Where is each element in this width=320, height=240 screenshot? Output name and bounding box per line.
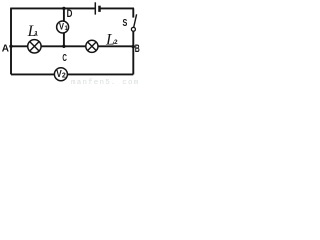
svg-text:manfen5. com: manfen5. com [71,79,139,86]
voltmeter V2 [54,68,67,81]
svg-text:2: 2 [114,39,118,46]
svg-text:D: D [67,8,73,20]
battery short thick plate [98,6,101,12]
node C dot [62,45,65,48]
lamp L2 [86,40,98,52]
svg-text:1: 1 [34,31,38,38]
svg-text:S: S [123,18,128,29]
switch S blade [134,14,137,27]
wire: L1 to C [41,45,86,47]
svg-text:B: B [135,43,140,55]
wire: D down to voltmeter V1 [63,8,65,21]
wire: right vertical lower (switch to bottom-right corner) [132,31,134,74]
node D dot [62,7,65,10]
node B dot [132,45,135,48]
wire: top left segment (top-left corner to battery) [10,7,94,9]
svg-text:C: C [62,53,67,64]
wire: middle A to L1 [11,45,28,47]
switch S pivot circle [131,27,135,31]
wire: top right segment (battery to top-right corner) [100,7,134,9]
wire: bottom right (V2 to corner) [67,73,133,75]
svg-text:2: 2 [62,72,66,79]
wire: right vertical upper (corner to switch) [132,8,134,17]
wire: V1 down to C [63,33,65,46]
battery long plate [94,2,96,14]
node A dot [9,45,12,48]
lamp L1 [28,40,41,53]
wire: L2 to B [98,45,134,47]
wire: left vertical (top-left to bottom-left) [10,8,12,74]
voltmeter V1 [57,21,69,33]
wire: bottom left (corner to V2) [11,73,54,75]
svg-text:A: A [2,44,9,55]
svg-text:V: V [59,22,64,32]
